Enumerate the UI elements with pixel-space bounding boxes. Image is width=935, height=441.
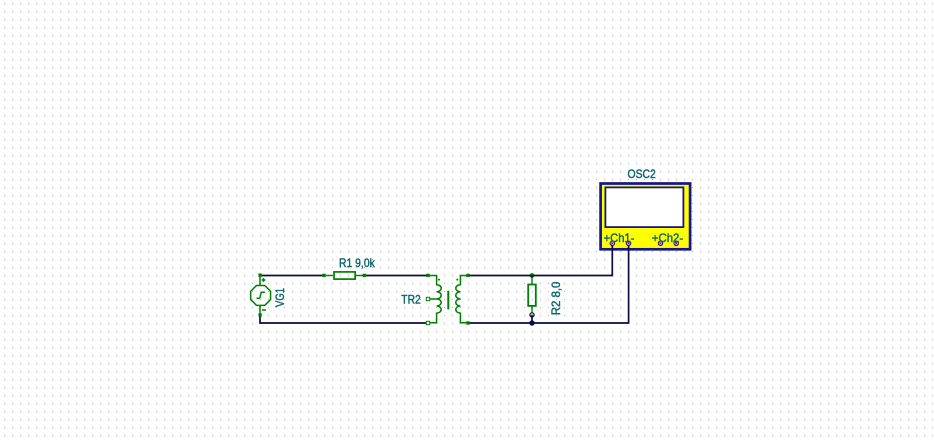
svg-text:VG1: VG1 — [274, 288, 287, 307]
node: R1 left pin — [322, 274, 325, 277]
node: TR2 primary middle pin (open) — [426, 297, 429, 300]
scope terminal Ch1+ — [610, 241, 614, 245]
scope terminal Ch2+ — [658, 241, 662, 245]
resistor R1 — [326, 272, 364, 279]
transformer polarity dot secondary — [456, 279, 458, 281]
node: TR2 primary top pin — [426, 274, 429, 277]
node: TR2 primary bottom pin (open) — [426, 321, 429, 324]
wire: R2 bottom pin to bottom rail — [531, 315, 533, 323]
node: R2 bottom pin circle — [530, 313, 534, 317]
svg-text:TR2: TR2 — [401, 293, 420, 306]
scope terminal Ch1- — [626, 241, 630, 245]
node: VG1 + pin — [258, 273, 261, 276]
svg-text:+Ch1-: +Ch1- — [604, 232, 635, 245]
node: R2 top pin junction — [530, 273, 535, 278]
svg-text:R1 9,0k: R1 9,0k — [339, 257, 375, 270]
node: VG1 - pin — [258, 313, 261, 316]
svg-text:OSC2: OSC2 — [628, 168, 656, 181]
wire: R1 to TR2 primary top — [364, 275, 428, 277]
transformer TR2 secondary winding — [456, 276, 468, 323]
node: R1 right pin — [363, 274, 366, 277]
resistor R2 — [528, 277, 536, 313]
scope terminal Ch2- — [674, 241, 678, 245]
node: TR2 secondary bottom pin — [466, 321, 469, 324]
oscilloscope OSC2 body — [601, 184, 691, 250]
transformer TR2 primary winding — [428, 276, 441, 323]
voltage source VG1 — [251, 275, 271, 315]
wire: TR2 secondary bottom to scope Ch1- — [468, 243, 629, 323]
transformer TR2 core — [447, 291, 449, 310]
node: TR2 secondary top pin — [466, 274, 469, 277]
wire: TR2 secondary top to scope Ch1+ — [468, 243, 612, 275]
wire top: VG1 plus to R1 — [260, 275, 324, 277]
transformer polarity dot primary — [438, 279, 440, 281]
svg-text:R2 8,0: R2 8,0 — [550, 282, 563, 316]
junction dot on bottom rail — [529, 320, 534, 325]
wire bottom: VG1 minus to TR2 primary bottom — [260, 315, 428, 323]
svg-text:+Ch2-: +Ch2- — [652, 232, 684, 245]
